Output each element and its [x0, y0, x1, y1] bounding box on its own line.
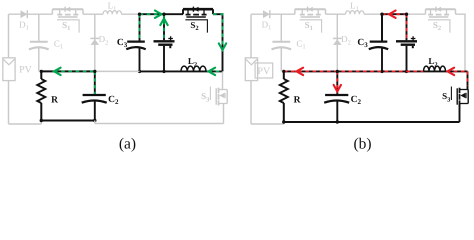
svg-text:PV: PV [19, 65, 33, 76]
svg-text:R: R [294, 96, 301, 106]
svg-text:(a): (a) [119, 136, 136, 153]
svg-text:(b): (b) [353, 136, 371, 153]
svg-text:PV: PV [257, 66, 271, 77]
svg-text:R: R [51, 96, 58, 106]
